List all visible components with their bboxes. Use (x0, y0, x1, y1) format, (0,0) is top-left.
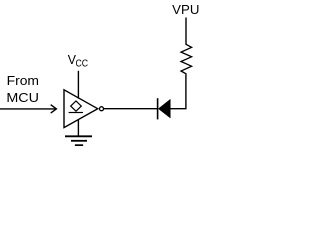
output bubble (open-drain) (100, 107, 104, 111)
wire output to diode cathode (104, 108, 158, 110)
wire VPU to resistor (185, 18, 187, 45)
label From MCU (6, 73, 39, 105)
label VPU (172, 2, 199, 17)
svg-text:MCU: MCU (6, 90, 39, 105)
wire arrow from MCU input (0, 105, 56, 113)
Vcc label (68, 52, 89, 69)
ground (65, 136, 92, 145)
diode D1 (anode triangle, pointing left) (158, 99, 170, 118)
diode D1 (cathode bar) (157, 98, 159, 119)
buffer U1 (open-drain driver triangle) (64, 90, 98, 128)
wire diode anode to pull-up corner (170, 75, 186, 109)
wire ground stem (77, 120, 79, 136)
wire Vcc stem (77, 71, 79, 99)
open-drain output symbol (diamond with underline) (69, 101, 83, 113)
svg-text:VPU: VPU (172, 2, 199, 17)
svg-text:CC: CC (76, 58, 89, 69)
resistor R1 (pull-up) (181, 44, 192, 75)
svg-text:From: From (7, 73, 39, 88)
